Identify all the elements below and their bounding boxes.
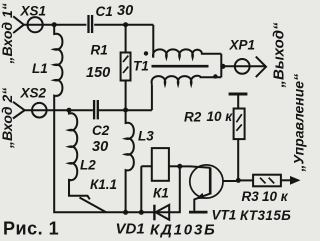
svg-text:ХР1: ХР1	[229, 38, 256, 53]
diode VD1 cathode bar	[153, 205, 155, 221]
svg-text:XS2: XS2	[20, 86, 47, 101]
transistor VT1 base bar	[209, 168, 212, 195]
connector XP1 arrow	[256, 57, 266, 78]
resistor R3 hatch	[260, 178, 274, 184]
resistor R3 body	[253, 175, 281, 187]
svg-text:30: 30	[92, 139, 108, 155]
resistor R3 right lead to control output	[281, 179, 291, 181]
connector XS1 circle	[27, 17, 42, 32]
svg-text:L1: L1	[32, 61, 48, 76]
wire T1 bottom winding right lead	[220, 66, 222, 77]
supply bar above R2	[229, 93, 248, 96]
svg-text:L3: L3	[138, 129, 154, 144]
inductor L2	[69, 110, 90, 199]
resistor R2 hatch	[236, 114, 241, 131]
node A (top rail / L1)	[52, 22, 57, 27]
svg-text:С1: С1	[96, 4, 113, 19]
T1 polarity dot bottom	[213, 74, 217, 78]
wire input rail 2 right (C2 to T1 winding lead)	[99, 109, 152, 111]
transistor VT1 emitter arrow	[197, 194, 204, 199]
svg-text:„Вход 2“: „Вход 2“	[0, 88, 15, 149]
node D (rail2 / R1 / L3)	[123, 108, 128, 113]
resistor R1 hatch	[123, 56, 128, 73]
transistor VT1 base lead wire	[223, 180, 238, 182]
node C (rail2 / L2)	[67, 108, 72, 113]
transformer T1 core	[152, 65, 209, 68]
emitter ground bar	[189, 211, 208, 214]
transformer T1 bottom winding	[152, 76, 222, 85]
connector XP1 circle	[235, 59, 250, 74]
svg-text:10 к: 10 к	[262, 189, 289, 204]
resistor R3 left lead	[238, 179, 253, 181]
inductor L3	[126, 110, 134, 212]
svg-text:КД103Б: КД103Б	[150, 222, 217, 239]
svg-text:L2: L2	[80, 158, 96, 173]
wire T1 bottom winding left lead	[151, 84, 153, 110]
capacitor C2	[94, 100, 98, 119]
wire T1 top winding right lead	[220, 54, 222, 67]
node I (base / R2 / R3)	[236, 178, 241, 183]
connector XS1 fork	[13, 16, 24, 33]
node H (collector / relay / VD1)	[177, 164, 182, 169]
wire XP1 output lead	[221, 65, 265, 67]
svg-text:„Вход 1“: „Вход 1“	[0, 3, 15, 64]
svg-text:„Выход“: „Выход“	[271, 22, 288, 89]
relay K1 left lead	[141, 166, 152, 212]
control output arrow	[291, 177, 300, 184]
transformer T1 top winding	[153, 25, 221, 58]
transistor VT1 circle	[190, 165, 223, 198]
connector XS2 circle	[32, 103, 47, 118]
wire input rail 2 left (XS2 to C2)	[25, 109, 93, 111]
resistor R1 body	[121, 53, 131, 81]
resistor R2 top lead	[237, 94, 239, 109]
capacitor C1	[89, 15, 93, 33]
relay coil K1 body	[152, 148, 169, 181]
svg-text:VD1: VD1	[116, 221, 145, 238]
diode VD1 triangle	[156, 205, 170, 220]
resistor R2 body	[234, 109, 245, 140]
svg-text:К1: К1	[153, 186, 169, 201]
T1 polarity dot top	[144, 51, 148, 55]
svg-text:VT1: VT1	[212, 208, 237, 223]
svg-text:„Управление“: „Управление“	[291, 74, 307, 173]
node E (T1 / XP1 output)	[220, 64, 225, 69]
resistor R2 bottom lead	[237, 139, 239, 180]
svg-text:Т1: Т1	[133, 59, 149, 74]
svg-text:Рис. 1: Рис. 1	[3, 219, 59, 239]
transistor VT1 collector lead	[180, 166, 210, 167]
relay contact K1.1 arm	[80, 198, 107, 213]
svg-text:КТ315Б: КТ315Б	[240, 208, 291, 223]
svg-text:R1: R1	[91, 43, 108, 58]
wire top rail left (XS1 to C1)	[24, 24, 87, 26]
node G (L3 / rail)	[123, 210, 128, 215]
wire top rail right (C1 to T1)	[94, 24, 153, 26]
svg-text:R3: R3	[242, 189, 260, 204]
svg-text:30: 30	[117, 3, 133, 19]
svg-text:С2: С2	[92, 123, 110, 138]
node F (K1 left / rail)	[139, 210, 144, 215]
node B (top rail / R1)	[123, 22, 128, 27]
resistor R1 leads	[125, 25, 127, 110]
svg-text:XS1: XS1	[20, 4, 47, 19]
inductor L1	[54, 25, 180, 213]
svg-text:150: 150	[86, 65, 110, 81]
svg-text:К1.1: К1.1	[90, 177, 117, 192]
connector XS2 fork	[13, 102, 25, 119]
transistor VT1 emitter lead	[194, 194, 210, 211]
svg-text:R2: R2	[184, 110, 202, 125]
relay K1 right lead	[169, 165, 180, 167]
svg-text:10 к: 10 к	[207, 109, 234, 124]
